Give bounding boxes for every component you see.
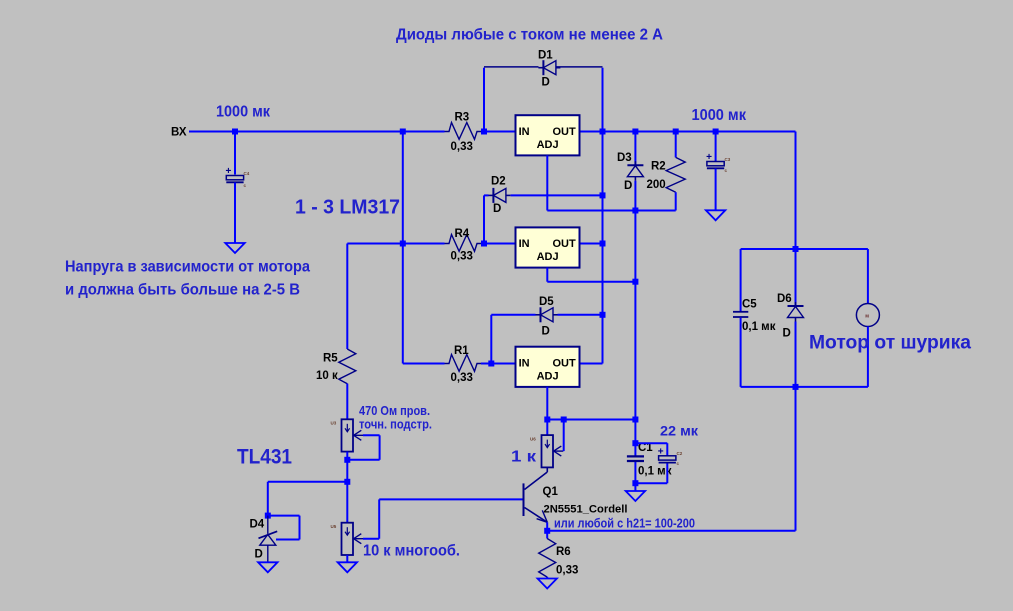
wire pot10k top [346,482,348,523]
wire R2 lower [675,192,677,210]
svg-text:Напруга в зависимости от мотор: Напруга в зависимости от мотора [65,258,310,275]
wire emitter to R6 [546,531,548,539]
svg-text:2N5551_Cordell: 2N5551_Cordell [544,504,628,516]
label motor [809,333,971,354]
wire R3 to U1 IN [481,131,516,133]
svg-text:D3: D3 [617,152,632,164]
potentiometer U4 470 Ом [331,419,364,451]
label TL431 [237,446,292,469]
wire motor right lower [867,327,869,387]
svg-text:OUT: OUT [553,358,577,370]
label napruga line2 [65,282,300,299]
svg-text:R4: R4 [455,228,470,240]
capacitor C1 [627,442,672,478]
label title diodes [396,27,663,44]
wire R1 to U3 IN [481,363,516,365]
svg-text:200: 200 [647,179,666,191]
svg-text:D: D [255,549,263,561]
wire C4 branch lower [234,183,236,244]
resistor R2 [647,157,686,192]
junction C1 bottom [632,480,638,486]
diode D3 [617,152,643,192]
junction C4 top [232,129,238,135]
wire pot1k bottom to collector [546,468,548,472]
junction ADJ3 [544,417,550,423]
wire R6 to ground [546,577,548,579]
svg-text:TL431: TL431 [237,446,292,469]
label 470 Ом line1 [359,403,430,418]
svg-text:C4: C4 [244,171,250,176]
svg-text:1000 мк: 1000 мк [692,107,747,124]
wire R5 top link [347,244,403,350]
wire pot10k bottom [346,555,348,562]
wire emitter return vertical [795,387,797,531]
svg-text:м: м [865,314,869,320]
svg-text:0,33: 0,33 [556,565,578,577]
label 1-3 LM317 [295,197,400,219]
junction R1-D5 branch [488,361,494,367]
wire D5 to bus [558,314,603,316]
svg-text:D: D [542,77,550,89]
junction pot470 bottom [344,457,350,463]
svg-text:0,33: 0,33 [451,372,473,384]
svg-text:c: c [677,461,680,466]
wire top rail to motor corner [795,132,797,250]
svg-text:D: D [783,328,791,340]
resistor R1 [445,345,482,384]
svg-text:D: D [624,180,632,192]
svg-text:C3: C3 [725,157,731,162]
junction D5 row on bus [600,312,606,318]
resistor R5 [316,349,356,384]
wire OUT bus vertical x602 [602,132,604,364]
wire 22uF bottom branch [635,464,667,484]
svg-text:R3: R3 [455,112,470,124]
wire ADJ1 bottom rail [547,210,675,212]
junction motor bottom [793,384,799,390]
svg-text:D5: D5 [539,296,554,308]
wire D2 to bus [511,194,603,196]
node BX input label [171,127,187,139]
svg-text:ВХ: ВХ [171,127,187,139]
junction motor top [793,246,799,252]
svg-text:ADJ: ADJ [537,139,559,151]
svg-text:c: c [725,168,728,173]
svg-text:или любой с h21= 100-200: или любой с h21= 100-200 [554,516,695,531]
wire D6 upper [795,249,797,306]
svg-text:D6: D6 [777,293,792,305]
junction divider mid [344,479,350,485]
svg-text:0,33: 0,33 [451,251,473,263]
wire motor box top [741,248,868,250]
wire U1 OUT rail [580,131,796,133]
junction D2 row on bus [600,192,606,198]
diode D2 [488,176,510,216]
svg-text:C2: C2 [677,451,683,456]
resistor R6 [539,539,579,578]
diode D5 [536,296,558,338]
svg-text:C5: C5 [742,299,757,311]
wire D3 branch lower [634,181,636,211]
diode D6 [777,293,804,340]
svg-text:Мотор от шурика: Мотор от шурика [809,333,971,354]
svg-text:IN: IN [519,238,530,250]
wire emitter return horizontal [547,530,795,532]
wire D2 branch up [484,195,489,243]
label 1000мк left [216,103,270,120]
svg-text:0,33: 0,33 [451,141,473,153]
op-amp regulator U3 LM317 [516,347,580,387]
svg-text:IN: IN [519,126,530,138]
wire ADJ3 down [546,387,548,420]
label 1000мк right [692,107,747,124]
ground C4 [225,243,244,253]
wire D5 branch up [491,315,535,364]
wire R4 to U2 IN [481,243,516,245]
svg-text:1 - 3 LM317: 1 - 3 LM317 [295,197,400,219]
ground D4 [258,562,277,572]
wire motor box bottom [741,386,868,388]
svg-text:OUT: OUT [553,238,577,250]
wire divider to D4 [268,482,348,516]
op-amp regulator U1 LM317 [516,115,580,155]
svg-text:IN: IN [519,358,530,370]
wire pot1k top [546,420,548,436]
svg-text:D1: D1 [538,50,553,62]
potentiometer U5 10к [331,523,364,555]
wire ADJ1 down [546,155,548,210]
transistor Q1 [524,472,628,522]
svg-text:0,1 мк: 0,1 мк [742,321,776,333]
capacitor C3 1000мк right [706,152,731,173]
label 470 Ом line2 [359,416,432,431]
wire middle bus x635 [634,211,636,420]
svg-text:D2: D2 [491,176,506,188]
wire motor box left lower [740,318,742,387]
junction R2 top [673,129,679,135]
label 10к многооб [363,543,460,560]
junction wiper return [561,417,567,423]
label h21 note [554,516,695,531]
svg-text:D: D [542,326,550,338]
junction U1 OUT [600,129,606,135]
svg-text:OUT: OUT [553,126,577,138]
svg-text:R5: R5 [323,353,338,365]
svg-text:1 к: 1 к [511,449,537,466]
wire main input rail [189,131,445,133]
svg-text:U3: U3 [331,421,337,426]
wire D1 branch up [484,67,539,132]
wire pot470 wiper loop [347,435,379,460]
wire C3 branch lower [715,169,717,211]
svg-text:точн. подстр.: точн. подстр. [359,416,432,431]
svg-text:D4: D4 [250,519,265,531]
capacitor C5 [733,299,776,334]
junction emitter [544,528,550,534]
junction C3 top [713,129,719,135]
wire pot470 bottom [346,452,348,482]
wire pot1k wiper up [563,420,565,452]
wire R2 upper [675,132,677,158]
diode D1 [538,50,560,89]
wire U2 OUT [580,243,603,245]
svg-text:ADJ: ADJ [537,370,559,382]
svg-text:D: D [493,203,501,215]
wire D4 ref loop [268,516,300,540]
wire C1 upper [634,420,636,456]
junction D3 bottom [632,208,638,214]
label napruga line1 [65,258,310,275]
svg-text:Диоды любые с током не менее 2: Диоды любые с током не менее 2 А [396,27,663,44]
ground pot10k [338,562,357,572]
capacitor C2 22мк [658,446,683,466]
wire R5 to pot470 [346,384,348,420]
capacitor C4 1000мк [226,166,250,188]
ground C3 [706,210,725,220]
svg-text:U5: U5 [331,524,337,529]
svg-text:R6: R6 [556,546,571,558]
junction R3-D1 branch [481,129,487,135]
wire C1 to ground [634,483,636,491]
label 22мк [660,423,699,439]
wire ADJ3 rail right [547,419,635,421]
svg-text:R1: R1 [454,345,469,357]
wire 22uF top branch [635,443,667,455]
junction C1 rail [632,417,638,423]
junction input feed [400,129,406,135]
svg-text:U6: U6 [530,437,536,442]
svg-text:ADJ: ADJ [537,251,559,263]
svg-text:Q1: Q1 [543,486,559,498]
wire motor box left upper [740,249,742,311]
wire Q1 emitter down [546,522,548,531]
svg-text:10 к: 10 к [316,370,338,382]
wire pot10k wiper to base [363,499,523,538]
wire vertical feed x403 [402,132,404,364]
junction R4-D2 branch [481,241,487,247]
junction feed row2 [400,241,406,247]
junction U2 OUT on bus [600,241,606,247]
junction C1 top [632,440,638,446]
wire D1 to OUT node [556,67,603,132]
svg-text:и должна быть больше на 2-5 В: и должна быть больше на 2-5 В [65,282,300,299]
wire ADJ2 down [547,268,635,282]
resistor R4 [445,228,482,263]
wire C4 branch upper [234,132,236,175]
wire D3 branch upper [634,132,636,166]
junction D3 top [632,129,638,135]
zener D4 TL431 [250,516,278,563]
junction D4 top [265,513,271,519]
ground R6 [538,579,557,589]
wire C3 branch upper [715,132,717,162]
svg-text:22 мк: 22 мк [660,423,699,439]
svg-text:1000 мк: 1000 мк [216,103,270,120]
svg-text:c: c [244,183,247,188]
wire row2 to R4 [403,243,445,245]
wire D6 lower [795,322,797,387]
motor M circle [856,304,879,327]
wire motor right upper [867,249,869,304]
label 1к [511,449,537,466]
resistor R3 [445,112,482,153]
svg-text:R2: R2 [651,161,666,173]
ground C1 [626,491,645,501]
potentiometer U6 1к [530,435,563,467]
svg-text:10 к многооб.: 10 к многооб. [363,543,460,560]
wire C1 lower [634,462,636,483]
wire row3 to R1 [403,363,445,365]
wire U3 OUT [580,363,603,365]
op-amp regulator U2 LM317 [516,227,580,267]
junction ADJ2 on bus [632,279,638,285]
